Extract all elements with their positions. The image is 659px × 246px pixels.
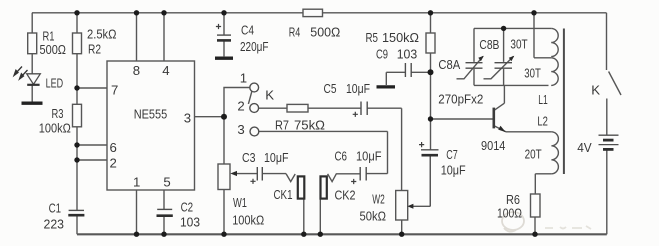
svg-text:10μF: 10μF [356, 148, 382, 163]
svg-text:223: 223 [44, 217, 65, 232]
svg-text:K: K [265, 88, 274, 103]
svg-text:L2: L2 [537, 113, 548, 128]
svg-text:150kΩ: 150kΩ [382, 30, 419, 45]
svg-text:R3: R3 [52, 106, 64, 121]
svg-text:C6: C6 [335, 148, 348, 163]
svg-text:20T: 20T [525, 146, 542, 161]
svg-text:7: 7 [111, 83, 118, 98]
svg-text:2: 2 [110, 155, 117, 170]
svg-text:CK1: CK1 [274, 187, 293, 202]
svg-text:3: 3 [237, 122, 244, 137]
svg-text:10μF: 10μF [346, 81, 370, 96]
svg-text:R2: R2 [88, 42, 101, 57]
svg-text:C2: C2 [181, 200, 194, 215]
svg-text:9014: 9014 [481, 138, 505, 153]
svg-text:NE555: NE555 [134, 107, 168, 122]
svg-text:220μF: 220μF [240, 39, 269, 54]
svg-text:2.5kΩ: 2.5kΩ [87, 27, 117, 42]
svg-text:3: 3 [184, 111, 191, 126]
svg-text:C8A: C8A [438, 57, 460, 72]
svg-text:10μF: 10μF [441, 163, 466, 178]
svg-text:4V: 4V [577, 140, 592, 155]
svg-text:50kΩ: 50kΩ [360, 208, 387, 223]
svg-text:C3: C3 [242, 150, 256, 165]
svg-text:R4: R4 [289, 24, 301, 39]
svg-text:C5: C5 [324, 81, 337, 96]
svg-text:100Ω: 100Ω [497, 206, 522, 221]
svg-text:W1: W1 [233, 195, 247, 210]
svg-text:30T: 30T [524, 65, 541, 80]
svg-text:500Ω: 500Ω [310, 24, 340, 39]
svg-text:5: 5 [163, 175, 170, 190]
svg-text:103: 103 [397, 46, 418, 61]
svg-text:CK2: CK2 [335, 187, 356, 202]
svg-text:1: 1 [133, 175, 140, 190]
svg-text:L1: L1 [538, 92, 548, 107]
svg-text:103: 103 [180, 214, 200, 229]
svg-text:2: 2 [237, 98, 244, 113]
svg-text:4: 4 [162, 63, 169, 78]
svg-text:C7: C7 [446, 147, 458, 162]
svg-text:6: 6 [110, 140, 117, 155]
svg-text:8: 8 [133, 63, 140, 78]
svg-text:C1: C1 [49, 200, 62, 215]
svg-text:C4: C4 [241, 23, 254, 38]
svg-text:R6: R6 [506, 192, 520, 207]
svg-text:100kΩ: 100kΩ [39, 121, 71, 136]
svg-text:R5: R5 [366, 30, 379, 45]
svg-text:C9: C9 [376, 46, 388, 61]
svg-text:LED: LED [46, 76, 64, 91]
svg-text:R7: R7 [275, 117, 289, 132]
svg-text:C8B: C8B [479, 37, 499, 52]
svg-text:K: K [591, 83, 600, 98]
svg-text:30T: 30T [510, 37, 527, 52]
svg-text:270pFx2: 270pFx2 [438, 92, 483, 107]
svg-text:500Ω: 500Ω [40, 42, 67, 57]
svg-text:1: 1 [240, 70, 247, 85]
svg-text:W2: W2 [372, 192, 385, 207]
svg-text:100kΩ: 100kΩ [232, 212, 264, 227]
svg-text:75kΩ: 75kΩ [294, 117, 325, 132]
svg-text:10μF: 10μF [264, 150, 289, 165]
